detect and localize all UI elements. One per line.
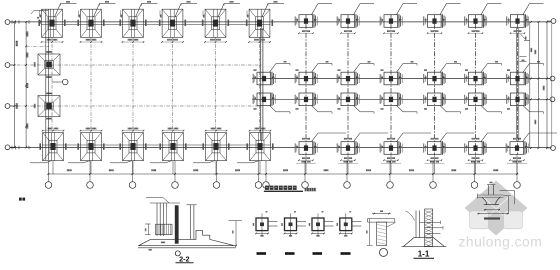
right dimension line b xyxy=(538,22,540,148)
left axis circle 2 xyxy=(5,63,14,68)
footing J-3 bottom row at x=517 xyxy=(506,133,557,163)
beam line under top row xyxy=(41,24,271,26)
footing J-3 bottom row at x=434.5 xyxy=(423,133,474,163)
intermediate axis dash xyxy=(26,45,49,47)
right axis circle at y=148 xyxy=(547,146,555,151)
axis line row D horizontal xyxy=(10,147,552,149)
right axis circle at y=78.5 xyxy=(547,76,555,81)
footing J-3 top row at x=391 xyxy=(380,4,417,34)
title scale text xyxy=(305,188,316,191)
footing J-3 top row at x=348 xyxy=(337,4,374,34)
footing J-2 left column at y=64.5 xyxy=(34,51,60,78)
axis tick marks top-left xyxy=(12,10,48,23)
section 2-2 footing profile xyxy=(138,230,236,247)
bottom axis connectors xyxy=(49,161,518,182)
section 1-1 wall lines xyxy=(406,211,420,239)
footing J-3 middle row C at x=434.5 xyxy=(423,93,460,112)
pier detail bubble xyxy=(380,248,388,256)
right dimension line a xyxy=(529,70,531,148)
footing J-1 bottom row at x=133 xyxy=(110,128,147,163)
section 2-2 hatched block xyxy=(156,224,172,234)
footing J-3 bottom row at x=306 xyxy=(295,133,346,163)
right axis circle at y=99.3 xyxy=(547,97,555,102)
left dimension line inner xyxy=(25,22,27,147)
axis line row B right portion xyxy=(252,78,551,80)
column section detail 2 xyxy=(281,211,306,237)
footing J-3 middle row B at x=475.5 xyxy=(464,64,501,86)
footing J-3 middle row B at x=306 xyxy=(295,64,332,86)
footing J-1 bottom row at x=173 xyxy=(150,128,187,163)
footing J-3 bottom row at x=475.5 xyxy=(464,133,515,163)
left axis circle 1 xyxy=(5,20,14,25)
section 2-2 column dark band xyxy=(175,205,179,243)
footing J-3 top row at x=475.5 xyxy=(464,4,501,34)
right axis circle at y=21.0 xyxy=(547,19,556,24)
footing J-1 top row at x=215.5 xyxy=(202,1,240,43)
footing J-3 middle row C at x=306 xyxy=(295,93,332,112)
column section detail 3 xyxy=(309,211,334,237)
footing J-1 top row at x=52 xyxy=(38,1,76,43)
footing J-3 middle row C at x=348 xyxy=(337,93,374,112)
svg-text:2-2: 2-2 xyxy=(179,254,189,263)
footing J-3 top row at x=306 xyxy=(295,4,332,34)
column grid verticals left portion xyxy=(52,38,260,133)
section 1-1 tie lines xyxy=(420,221,444,234)
pedestal detail dims xyxy=(478,191,515,215)
footing J-3 bottom row at x=391 xyxy=(380,133,431,163)
left dimension line outer xyxy=(13,22,15,147)
left axis circle 4 xyxy=(5,145,14,150)
footing J-3 middle row C at x=517.5 xyxy=(506,93,543,112)
bottom axis circles xyxy=(45,182,520,189)
footing J-3 middle row B at x=517.5 xyxy=(506,64,543,86)
footing J-1 top row at x=133 xyxy=(119,1,157,43)
footing J-3 middle row B at x=264 xyxy=(253,64,290,86)
section 2-2 right dim xyxy=(229,221,243,247)
drawing title block glyphs xyxy=(265,186,297,190)
right dimension ticks xyxy=(530,21,548,149)
section 1-1 hatched column xyxy=(425,209,433,247)
section 2-2 wall lines xyxy=(146,198,180,237)
axis line row B left portion dashed xyxy=(10,64,262,66)
footing J-1 top row at x=91 xyxy=(77,1,115,43)
footing J-3 middle row C at x=264 xyxy=(253,93,290,112)
detail callout circle left portion xyxy=(52,79,68,85)
footing J-3 top row at x=517.5 xyxy=(506,4,543,34)
bottom dimension ticks xyxy=(48,173,518,175)
footing J-1 top row at x=259.5 xyxy=(246,1,284,43)
footing J-1 bottom row at x=53 xyxy=(30,128,67,163)
title underline xyxy=(264,190,303,192)
beam line above bottom row xyxy=(42,144,271,146)
footing J-1 bottom row at x=260 xyxy=(237,128,274,163)
notes label xyxy=(19,198,25,201)
bottom dimension texts xyxy=(67,169,498,171)
section 2-2 bottom texts xyxy=(149,242,166,251)
pedestal detail column xyxy=(487,182,495,195)
left dimension texts xyxy=(16,32,29,129)
column section detail 1 xyxy=(253,211,278,237)
left axis circle 3 xyxy=(5,104,14,109)
axis line row C left portion dashed xyxy=(10,105,262,107)
rebar schedule bars xyxy=(257,252,351,255)
wall line pair right edge column xyxy=(516,28,519,141)
right dimension line c xyxy=(546,22,548,148)
column section detail 4 xyxy=(337,211,362,237)
footing J-3 bottom row at x=348 xyxy=(337,133,388,163)
footing J-1 bottom row at x=91 xyxy=(68,128,105,163)
footing J-3 top row at x=434.5 xyxy=(423,4,460,34)
footing J-3 middle row C at x=475.5 xyxy=(464,93,501,112)
left wall line pair xyxy=(46,10,49,161)
section 1-1 base flare xyxy=(402,238,447,247)
section 2-2 left dim xyxy=(145,224,151,235)
axis line row C right portion xyxy=(252,98,551,100)
section 1-1 label xyxy=(414,250,435,259)
footing J-3 middle row C at x=391 xyxy=(380,93,417,112)
right dimension texts xyxy=(534,50,544,124)
footing J-3 middle row B at x=348 xyxy=(337,64,374,86)
axis line row A horizontal xyxy=(10,21,552,23)
footing J-3 middle row B at x=391 xyxy=(380,64,417,86)
wall line on axis between portions xyxy=(261,28,263,141)
axis tick marks bottom-left xyxy=(12,146,41,150)
footing J-3 middle row B at x=434.5 xyxy=(423,64,460,86)
right annotation bracket xyxy=(520,22,533,70)
footing J-1 bottom row at x=216 xyxy=(193,128,230,163)
svg-text:1-1: 1-1 xyxy=(418,250,430,259)
section 2-2 label xyxy=(176,254,194,263)
pier detail with stirrups xyxy=(366,210,395,245)
footing J-2 left column at y=106 xyxy=(34,93,60,120)
section 2-2 bubble xyxy=(175,251,180,256)
pedestal detail cap slab xyxy=(478,194,512,199)
pedestal detail haunch xyxy=(482,197,501,205)
right edge axis vertical xyxy=(551,24,553,147)
footing J-1 top row at x=172.5 xyxy=(159,1,197,43)
svg-text:zhulong.com: zhulong.com xyxy=(459,235,543,250)
stub lines below bottom row footings xyxy=(53,155,517,175)
zhulong watermark diamond logo xyxy=(465,181,528,236)
section 2-2 right wall lines xyxy=(187,205,197,240)
bottom dimension line xyxy=(48,173,519,175)
pedestal detail scale bar xyxy=(484,217,500,219)
left dimension ticks xyxy=(13,21,27,148)
column grid verticals right portion xyxy=(306,15,518,155)
